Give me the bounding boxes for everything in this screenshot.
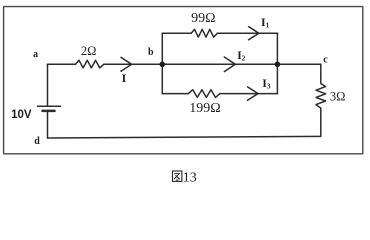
resistor 2ohm xyxy=(76,60,104,68)
svg-text:3Ω: 3Ω xyxy=(330,89,346,103)
arrow I3 xyxy=(248,87,258,100)
wire bottom branch left xyxy=(162,93,188,95)
resistor 3ohm xyxy=(316,84,326,109)
svg-text:10V: 10V xyxy=(11,109,32,121)
wire right vertical lower xyxy=(320,108,322,136)
wire right vertical upper xyxy=(320,64,322,83)
svg-text:a: a xyxy=(33,49,38,60)
wire left vertical lower xyxy=(47,111,49,138)
wire left vertical upper xyxy=(47,64,49,106)
wire junction to corner c xyxy=(277,63,320,65)
wire resistor to node b xyxy=(104,63,163,65)
svg-text:I1: I1 xyxy=(261,15,270,29)
battery 10V plate short xyxy=(43,110,55,113)
wire bottom branch right xyxy=(220,93,277,95)
wire vertical at node b xyxy=(161,33,163,93)
node junction dot right xyxy=(275,62,281,68)
border frame xyxy=(4,7,363,154)
svg-text:199Ω: 199Ω xyxy=(189,101,220,116)
arrow I xyxy=(121,57,132,71)
svg-text:d: d xyxy=(34,136,40,147)
wire middle branch xyxy=(162,63,277,65)
wire vertical at node c junction xyxy=(276,33,278,93)
wire top branch left xyxy=(162,32,191,34)
arrow I1 xyxy=(249,27,259,40)
svg-text:b: b xyxy=(148,47,154,58)
resistor 199ohm xyxy=(188,90,220,98)
arrow I2 xyxy=(224,57,235,72)
svg-text:I: I xyxy=(122,71,127,85)
node b junction dot xyxy=(160,62,166,68)
resistor 99ohm xyxy=(191,29,217,37)
svg-text:c: c xyxy=(323,54,328,65)
wire top branch right xyxy=(218,32,278,34)
battery 10V plate long xyxy=(38,105,61,107)
wire bottom xyxy=(48,136,321,138)
svg-text:I2: I2 xyxy=(237,48,246,62)
svg-text:I3: I3 xyxy=(262,76,271,90)
svg-text:99Ω: 99Ω xyxy=(191,11,215,26)
svg-text:13: 13 xyxy=(183,170,197,185)
svg-text:2Ω: 2Ω xyxy=(81,44,97,58)
caption figure 13 glyph tu xyxy=(173,171,182,181)
wire a to resistor R1 xyxy=(48,63,76,65)
